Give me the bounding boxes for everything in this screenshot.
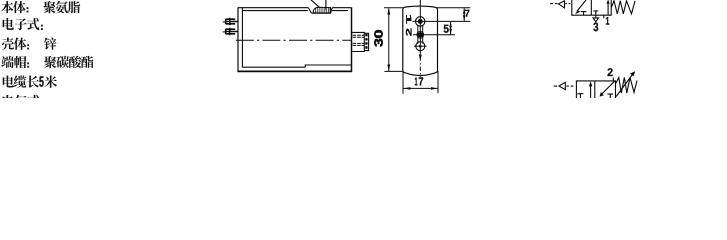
dim 30 top extension line xyxy=(384,7,404,9)
vertical centerline through holes xyxy=(419,0,421,61)
body inner bottom line xyxy=(242,66,305,68)
text line 5 xyxy=(3,75,57,87)
arrowhead down on centerline xyxy=(419,55,422,61)
label 5 (rotated) xyxy=(444,25,449,33)
body outer right edge xyxy=(351,7,353,72)
valve1 box1 blocked port T xyxy=(581,12,587,16)
colon line 3 xyxy=(27,44,29,49)
text line 2 xyxy=(3,18,40,30)
valve1 label 3 xyxy=(593,23,598,32)
valve2 box edges xyxy=(576,81,615,99)
valve1 box1 arrowhead xyxy=(575,10,580,14)
valve2 pilot dashed line xyxy=(554,85,558,87)
valve2 box1 blocked port T xyxy=(577,94,583,99)
hole circle bottom xyxy=(416,42,425,51)
screw 1 xyxy=(223,18,238,25)
slot lines xyxy=(418,25,423,44)
valve1 pilot triangle xyxy=(559,1,565,8)
text line 4 xyxy=(1,56,93,68)
digit 5 in text line 5 xyxy=(39,76,43,86)
cable connector block xyxy=(352,32,369,51)
valve2 pilot dashes to box xyxy=(566,85,573,87)
valve1 pilot dashed line xyxy=(550,3,557,5)
valve2 pilot triangle xyxy=(559,82,565,89)
valve1 port 1 stub xyxy=(603,15,605,18)
valve1 box edges xyxy=(572,0,611,15)
valve2 box1 up arrowhead xyxy=(589,81,592,86)
dim 5 arrowheads xyxy=(449,22,452,35)
dim 30 line xyxy=(388,8,390,71)
valve2 adjust arrowhead xyxy=(630,71,635,76)
valve2 label 2 xyxy=(608,68,613,76)
valve2 box2 blocked port T xyxy=(607,94,613,98)
valve2 box1 flow line up xyxy=(590,84,592,98)
dim 30 bottom extension line xyxy=(384,70,403,72)
label 30 (rotated) xyxy=(374,30,382,46)
centerline of side view xyxy=(236,39,352,41)
dim 30 arrowheads xyxy=(387,8,390,71)
label 7 (rotated) xyxy=(465,10,469,17)
body inner top line xyxy=(242,10,348,12)
colon line 1 xyxy=(27,7,29,12)
screw 2 xyxy=(223,28,238,35)
dim 17 arrowheads xyxy=(404,87,438,90)
dim 17 line xyxy=(404,87,438,89)
hole 2 horizontal centerline xyxy=(413,34,455,36)
body inner left line xyxy=(241,8,243,68)
top construction line xyxy=(437,7,471,9)
dim 17 extension lines xyxy=(403,71,438,94)
LED lens in notch xyxy=(313,7,331,13)
body outer bottom edge xyxy=(238,70,352,72)
valve1 box2 flow line up xyxy=(607,3,609,16)
hole circle top xyxy=(416,17,425,26)
colon line 2 xyxy=(41,25,43,30)
connector thread dashes xyxy=(353,35,364,45)
valve1 label 1 xyxy=(606,17,609,25)
text line 3 xyxy=(2,38,57,50)
hole 1 horizontal centerline xyxy=(412,20,470,22)
label 21 (rotated) xyxy=(406,15,412,36)
notch outline xyxy=(308,8,332,14)
dim 7 line xyxy=(463,8,465,21)
valve1 exhaust open arrow xyxy=(593,18,599,22)
body outer left edge xyxy=(237,7,239,72)
label 17 xyxy=(415,77,423,85)
valve2 port 2 stub xyxy=(612,78,614,81)
dim 7 arrowheads xyxy=(463,8,466,21)
front view outline xyxy=(403,6,438,75)
valve1 pilot dashes to box xyxy=(565,3,570,5)
valve2 adjust arrow shaft xyxy=(616,75,632,97)
valve1 box2 blocked port T xyxy=(593,11,598,18)
hole circle middle xyxy=(417,31,424,38)
valve2 boxes top edge xyxy=(576,80,616,82)
colon line 4 xyxy=(27,62,29,67)
text line 6 xyxy=(3,95,40,107)
LED leader line xyxy=(310,0,319,7)
valve1 flow up arrowhead xyxy=(607,0,610,4)
valve2 spring xyxy=(616,78,637,94)
valve2 diagonal arrowhead xyxy=(600,92,604,97)
body outer top edge xyxy=(238,7,352,9)
valve1 box1 diagonal flow path xyxy=(577,0,586,11)
bottom step band xyxy=(305,65,351,67)
dim 5 line xyxy=(450,22,452,35)
valve1 boxes bottom edge xyxy=(571,14,611,16)
text line 1 xyxy=(1,1,80,13)
valve1 spring xyxy=(611,1,635,14)
centerline dash-dot below xyxy=(419,63,421,77)
LED callout vertical line xyxy=(325,0,327,10)
valve2 box2 diagonal flow path xyxy=(601,81,614,94)
hole 3 horizontal centerline xyxy=(414,45,427,47)
